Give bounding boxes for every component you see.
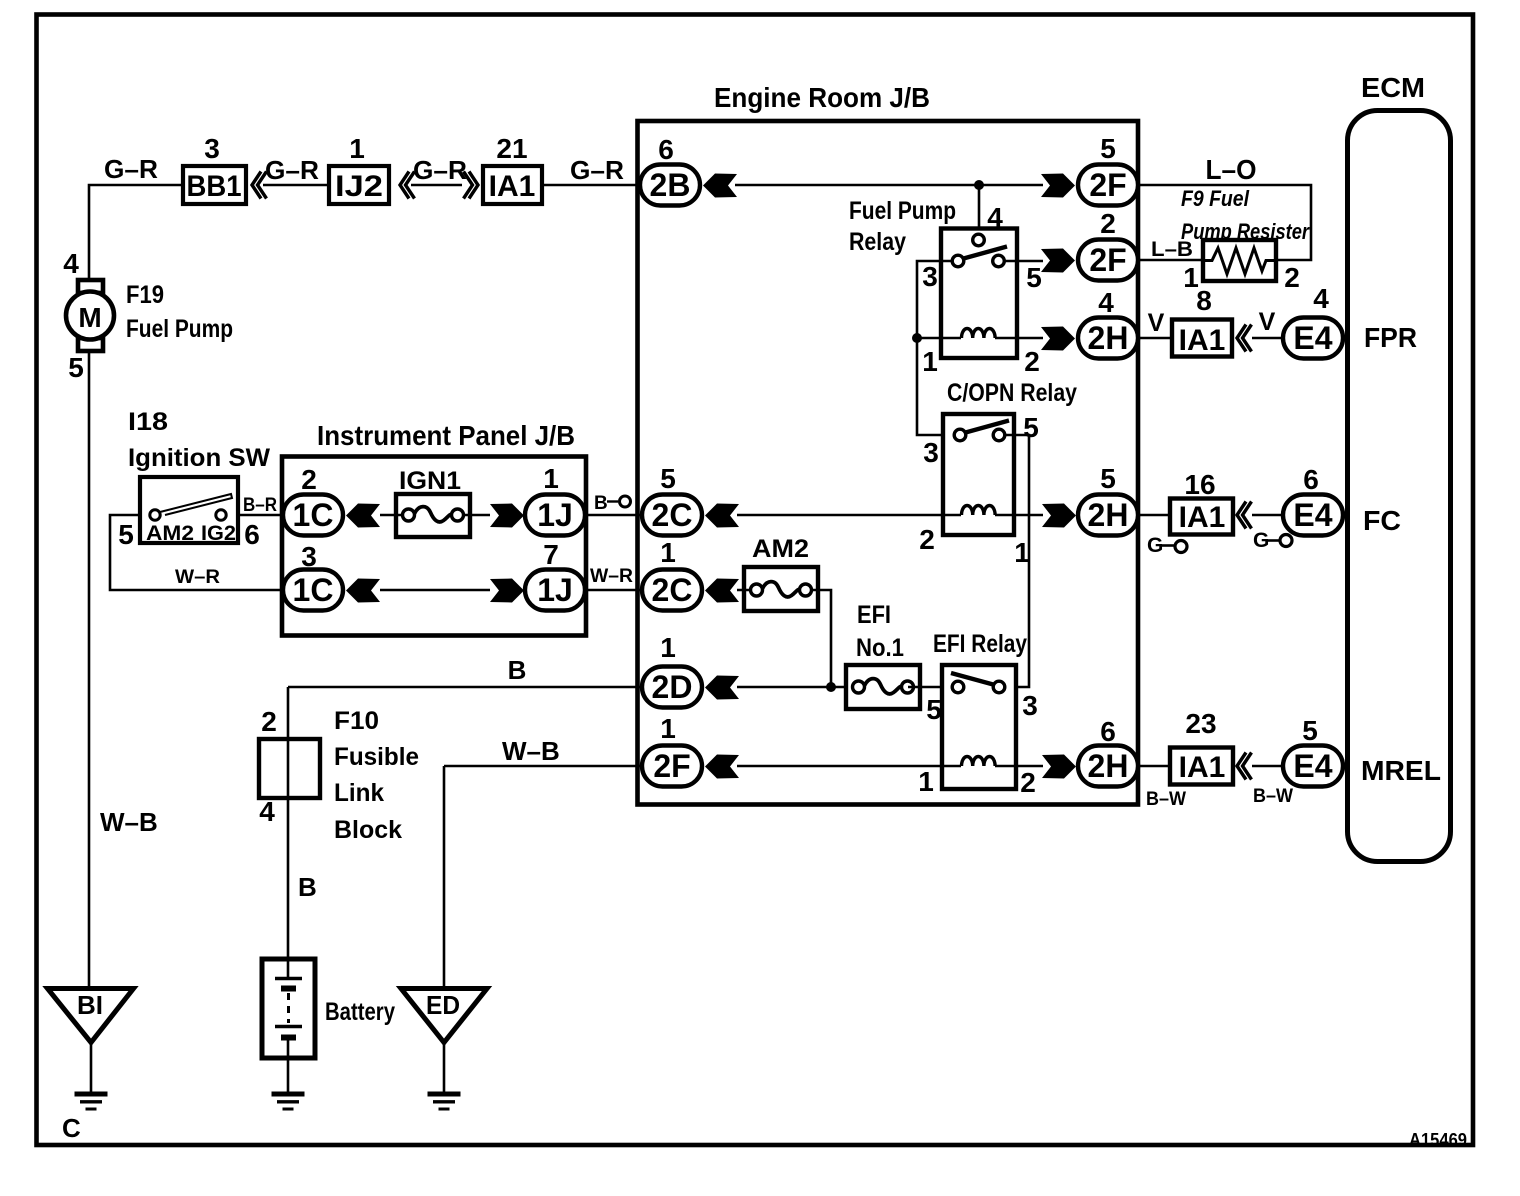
ignition switch lever xyxy=(160,494,232,515)
chevron at IJ2 xyxy=(400,172,415,199)
wire 2H to IA1 (MREL) xyxy=(1138,765,1170,768)
EFI relay coil xyxy=(962,757,996,767)
connector 2H (row3 FPR) xyxy=(1078,318,1138,359)
connector E4 (FC) xyxy=(1283,495,1343,536)
junction node at coil row xyxy=(912,333,922,343)
connector 2C (row4) xyxy=(642,495,702,536)
connector IA1 (FPR row) xyxy=(1172,320,1232,357)
wire color G-O right xyxy=(1253,529,1292,552)
chevron at BB1 xyxy=(252,172,267,199)
svg-text:F9 Fuel: F9 Fuel xyxy=(1181,186,1250,211)
arrow into 2B xyxy=(703,174,737,198)
svg-text:IA1: IA1 xyxy=(489,170,536,203)
svg-text:2: 2 xyxy=(1100,208,1116,239)
connector IA1 (FC row) xyxy=(1170,499,1233,535)
connector 2F (row1) xyxy=(1078,165,1138,206)
ground triangle BI xyxy=(48,989,134,1043)
svg-text:2B: 2B xyxy=(650,167,691,203)
wire 2D arrow to EFI No.1 fuse xyxy=(737,686,852,689)
wire pin5 to 2F(2) xyxy=(1004,260,1043,263)
battery box xyxy=(262,959,315,1058)
wire arrow to AM2 xyxy=(737,589,818,592)
svg-text:Relay: Relay xyxy=(849,228,906,256)
connector E4 (MREL) xyxy=(1283,746,1343,787)
svg-text:IJ2: IJ2 xyxy=(335,170,383,203)
svg-text:AM2: AM2 xyxy=(146,522,194,545)
svg-text:E4: E4 xyxy=(1293,748,1332,784)
ignition switch box xyxy=(140,477,238,543)
connector 1J (row5) xyxy=(525,570,585,611)
svg-text:5: 5 xyxy=(1100,133,1116,164)
svg-text:5: 5 xyxy=(1302,715,1318,746)
wire ignition pin5 down to W-R row xyxy=(110,515,283,590)
ground below BI xyxy=(75,1094,108,1109)
svg-text:No.1: No.1 xyxy=(856,634,904,662)
arrow into 2H row3 xyxy=(1041,327,1075,351)
wire IJ2 to IA1 xyxy=(411,184,462,187)
svg-text:2C: 2C xyxy=(652,497,693,533)
svg-text:ECM: ECM xyxy=(1361,72,1425,103)
svg-text:2: 2 xyxy=(261,706,277,737)
wire chevron to E4 xyxy=(1252,337,1283,340)
connector 2H (FC row) xyxy=(1078,495,1138,536)
svg-text:AM2: AM2 xyxy=(752,535,809,563)
connector 2H (MREL row) xyxy=(1078,746,1138,787)
wire ignition pin6 B-R to 1C xyxy=(238,514,283,517)
wire 2B to 2F(5) with junction xyxy=(735,184,1043,187)
arrow into 1J row5 xyxy=(490,579,524,603)
arrow into 2D xyxy=(705,676,739,700)
svg-text:1C: 1C xyxy=(293,497,334,533)
svg-text:Engine Room J/B: Engine Room J/B xyxy=(714,82,930,113)
resistor zigzag xyxy=(1203,248,1276,274)
svg-text:C/OPN Relay: C/OPN Relay xyxy=(947,379,1077,407)
arrow into 2C row5 xyxy=(705,579,739,603)
svg-text:6: 6 xyxy=(658,134,674,165)
motor fuel pump F19: bottom terminal xyxy=(78,338,103,351)
svg-text:2D: 2D xyxy=(652,669,693,705)
svg-text:5: 5 xyxy=(1026,262,1042,293)
chevron at IA1 MREL xyxy=(1237,753,1252,780)
svg-text:2F: 2F xyxy=(653,748,690,784)
svg-text:4: 4 xyxy=(63,248,79,279)
connector 1J (row4) xyxy=(525,495,585,536)
EFI relay lever xyxy=(951,673,995,685)
connector IJ2 xyxy=(329,166,389,204)
resistor F9 box xyxy=(1203,240,1276,281)
chevron at IA1 FPR xyxy=(1237,325,1252,352)
fuel pump relay coil xyxy=(917,337,961,340)
wire ED to ground xyxy=(443,1042,446,1092)
svg-text:G–R: G–R xyxy=(265,155,319,185)
svg-text:4: 4 xyxy=(1098,287,1114,318)
IGN1 fuse symbol xyxy=(403,507,464,522)
svg-text:2: 2 xyxy=(919,524,935,555)
arrow into 2H MREL xyxy=(1042,755,1076,779)
wire AM2 to 2D row junction xyxy=(818,590,831,687)
AM2 fuse symbol xyxy=(751,582,812,597)
svg-text:2C: 2C xyxy=(652,572,693,608)
arrow into 1J row4 xyxy=(490,504,524,528)
svg-text:2: 2 xyxy=(301,464,317,495)
svg-text:Instrument Panel J/B: Instrument Panel J/B xyxy=(317,420,575,451)
svg-text:L–O: L–O xyxy=(1206,154,1257,185)
connector 2C (row5) xyxy=(642,570,702,611)
C/OPN coil row wire xyxy=(737,514,961,517)
svg-text:1: 1 xyxy=(660,713,676,744)
svg-text:EFI: EFI xyxy=(857,601,891,629)
F10 fusible link block box xyxy=(259,739,320,798)
wire 2F(5) L-O loop to resistor pin2 xyxy=(1138,185,1311,260)
IGN1 fuse wire stubs xyxy=(380,514,490,517)
svg-text:Link: Link xyxy=(334,779,384,807)
svg-text:V: V xyxy=(1259,308,1276,336)
connector 2F (row8) xyxy=(642,746,702,787)
svg-text:G: G xyxy=(1253,529,1269,552)
svg-text:3: 3 xyxy=(204,133,220,164)
wire EFI No.1 to EFI relay xyxy=(908,686,953,689)
chevron at IA1 FC xyxy=(1237,502,1252,529)
svg-text:5: 5 xyxy=(118,519,134,550)
wire W-B from ED riser to 2F xyxy=(444,765,644,768)
connector 1C (row4) xyxy=(283,495,343,536)
svg-text:Fusible: Fusible xyxy=(334,743,419,771)
svg-text:21: 21 xyxy=(496,133,527,164)
wire chevron to E4 FC xyxy=(1252,514,1283,517)
wire 2H to IA1 (FPR) xyxy=(1138,337,1170,340)
svg-text:1: 1 xyxy=(660,632,676,663)
svg-text:6: 6 xyxy=(1100,716,1116,747)
svg-text:BB1: BB1 xyxy=(187,170,242,203)
svg-text:2: 2 xyxy=(1020,767,1036,798)
arrow into 2F second xyxy=(1041,249,1075,273)
svg-text:5: 5 xyxy=(1023,412,1039,443)
connector IA1 (MREL row) xyxy=(1170,748,1233,785)
svg-text:IA1: IA1 xyxy=(1179,501,1226,534)
svg-text:W–B: W–B xyxy=(100,807,158,837)
svg-text:3: 3 xyxy=(1022,690,1038,721)
svg-text:1: 1 xyxy=(543,463,559,494)
ignition switch contacts xyxy=(150,510,160,520)
svg-text:5: 5 xyxy=(926,694,942,725)
svg-text:7: 7 xyxy=(543,539,559,570)
fuel pump relay box xyxy=(941,229,1017,359)
wire 2F(2) L-B to resistor pin1 xyxy=(1138,259,1201,262)
wire chevron to E4 MREL xyxy=(1252,765,1283,768)
svg-text:V: V xyxy=(1148,309,1165,337)
ground triangle ED xyxy=(401,989,487,1043)
motor fuel pump F19: top terminal xyxy=(78,280,103,293)
svg-text:W–R: W–R xyxy=(175,567,220,588)
EFI relay coil row xyxy=(737,765,961,768)
svg-text:16: 16 xyxy=(1184,469,1215,500)
arrow into 1C row5 xyxy=(346,579,380,603)
connector 2B xyxy=(640,165,700,206)
connector BB1 xyxy=(183,166,246,204)
wire: fuel pump pin5 W-B down to BI ground triangle xyxy=(88,351,91,988)
svg-text:FPR: FPR xyxy=(1364,322,1417,353)
svg-text:Block: Block xyxy=(334,816,402,844)
connector IA1 (top) xyxy=(483,166,542,204)
chevron into IA1 xyxy=(464,172,479,199)
svg-text:Fuel Pump: Fuel Pump xyxy=(849,197,956,225)
wire color G-O left xyxy=(1147,534,1187,557)
svg-text:B–W: B–W xyxy=(1253,786,1293,807)
ground below battery xyxy=(272,1094,305,1109)
svg-text:B: B xyxy=(594,493,608,514)
C/OPN relay box xyxy=(943,414,1014,535)
svg-text:FC: FC xyxy=(1363,505,1401,536)
ECM box xyxy=(1348,111,1451,862)
svg-text:2H: 2H xyxy=(1088,497,1129,533)
wire 2H to IA1 (FC) xyxy=(1138,514,1170,517)
arrow into 2F row8 xyxy=(705,755,739,779)
wire junction down to relay pin 4 xyxy=(978,185,981,234)
svg-text:G–R: G–R xyxy=(104,154,158,184)
svg-text:B–W: B–W xyxy=(1146,789,1186,810)
svg-text:F10: F10 xyxy=(334,707,379,735)
wire across instrument panel row5 xyxy=(380,589,490,592)
ground below ED xyxy=(428,1094,461,1109)
svg-text:1: 1 xyxy=(660,537,676,568)
svg-text:1J: 1J xyxy=(537,572,573,608)
svg-text:2F: 2F xyxy=(1089,242,1126,278)
svg-text:IA1: IA1 xyxy=(1179,324,1226,357)
svg-text:1: 1 xyxy=(349,133,365,164)
svg-text:A15469: A15469 xyxy=(1409,1130,1467,1150)
connector 2F (row2) xyxy=(1078,240,1138,281)
svg-text:B: B xyxy=(298,872,317,902)
svg-text:2: 2 xyxy=(1284,262,1300,293)
fuel pump relay lever xyxy=(964,247,1008,259)
fuel pump relay pivot contact xyxy=(973,234,985,246)
wire BB1 to IJ2 xyxy=(263,184,327,187)
svg-text:3: 3 xyxy=(923,437,939,468)
arrow into 2H FC xyxy=(1042,504,1076,528)
svg-text:G: G xyxy=(1147,534,1163,557)
arrow into 2F top xyxy=(1041,174,1075,198)
svg-text:5: 5 xyxy=(68,352,84,383)
wire BI to ground xyxy=(90,1042,93,1092)
svg-text:8: 8 xyxy=(1196,285,1212,316)
AM2 fuse box xyxy=(744,567,818,611)
svg-text:4: 4 xyxy=(1313,283,1329,314)
svg-text:1: 1 xyxy=(1014,537,1030,568)
svg-text:B: B xyxy=(508,655,527,685)
svg-text:ED: ED xyxy=(426,990,460,1020)
svg-text:1: 1 xyxy=(922,346,938,377)
connector E4 (FPR) xyxy=(1283,318,1343,359)
svg-text:6: 6 xyxy=(1303,464,1319,495)
wire junction down to C/OPN relay pin3 xyxy=(917,338,953,435)
svg-text:W–B: W–B xyxy=(502,736,560,766)
svg-text:1: 1 xyxy=(918,766,934,797)
svg-text:E4: E4 xyxy=(1293,320,1332,356)
wire C/OPN pin5 down to EFI relay pin3 xyxy=(1005,435,1030,687)
svg-text:5: 5 xyxy=(660,463,676,494)
svg-text:F19: F19 xyxy=(126,281,164,309)
wire relay pin3 to coil row junction xyxy=(917,261,952,338)
svg-text:5: 5 xyxy=(1100,463,1116,494)
svg-text:MREL: MREL xyxy=(1361,755,1441,786)
fuel pump relay switch contacts xyxy=(952,255,964,267)
connector 1C (row5) xyxy=(283,570,343,611)
Instrument Panel J/B box xyxy=(282,457,586,636)
wire B from F10 riser to 2D xyxy=(288,686,644,689)
arrow into 1C row4 xyxy=(346,504,380,528)
wire IA1 to 2B xyxy=(544,184,639,187)
svg-text:2: 2 xyxy=(1024,346,1040,377)
svg-text:23: 23 xyxy=(1185,708,1216,739)
svg-text:2H: 2H xyxy=(1088,748,1129,784)
svg-text:3: 3 xyxy=(922,261,938,292)
C/OPN switch contacts xyxy=(954,429,966,441)
EFI relay box xyxy=(942,665,1016,789)
svg-text:G–R: G–R xyxy=(570,155,624,185)
EFI No.1 fuse symbol xyxy=(853,679,914,694)
C/OPN lever xyxy=(966,421,1010,433)
svg-text:Fuel Pump: Fuel Pump xyxy=(126,315,233,343)
svg-text:Ignition SW: Ignition SW xyxy=(128,444,270,472)
svg-text:4: 4 xyxy=(259,796,275,827)
Engine Room J/B box xyxy=(638,121,1139,805)
svg-text:1C: 1C xyxy=(293,572,334,608)
EFI relay switch contacts xyxy=(952,681,964,693)
C/OPN relay coil xyxy=(962,506,996,516)
svg-text:M: M xyxy=(78,302,101,333)
wire: fuel pump pin4 riser to G-R line xyxy=(89,185,181,280)
svg-text:C: C xyxy=(62,1113,81,1143)
IGN1 fuse box xyxy=(396,494,470,537)
svg-text:E4: E4 xyxy=(1293,497,1332,533)
EFI No.1 fuse box xyxy=(846,665,920,709)
svg-text:IGN1: IGN1 xyxy=(399,467,461,495)
svg-text:Battery: Battery xyxy=(325,998,395,1026)
connector 2D xyxy=(642,667,702,708)
svg-text:1J: 1J xyxy=(537,497,573,533)
svg-text:EFI Relay: EFI Relay xyxy=(933,630,1027,658)
motor M circle F19 xyxy=(66,292,114,340)
svg-text:IG2: IG2 xyxy=(201,522,236,545)
svg-text:G–R: G–R xyxy=(413,155,467,185)
svg-text:2H: 2H xyxy=(1088,320,1129,356)
wire ED riser xyxy=(443,766,446,988)
wire 1J to 2C with B-O label xyxy=(585,514,644,517)
wire 1J to 2C row5 xyxy=(585,589,644,592)
svg-text:BI: BI xyxy=(77,990,103,1020)
svg-text:2F: 2F xyxy=(1089,167,1126,203)
junction node on G-R line xyxy=(974,180,984,190)
junction node on 2D row xyxy=(826,682,836,692)
svg-text:B–R: B–R xyxy=(243,495,277,516)
svg-text:IA1: IA1 xyxy=(1179,751,1226,784)
wire battery riser through F10 xyxy=(287,687,290,977)
arrow into 2C row4 xyxy=(705,504,739,528)
battery plates xyxy=(287,959,290,978)
svg-text:I18: I18 xyxy=(128,408,168,436)
svg-text:6: 6 xyxy=(244,519,260,550)
svg-text:L–B: L–B xyxy=(1151,238,1193,261)
svg-text:W–R: W–R xyxy=(590,566,633,587)
